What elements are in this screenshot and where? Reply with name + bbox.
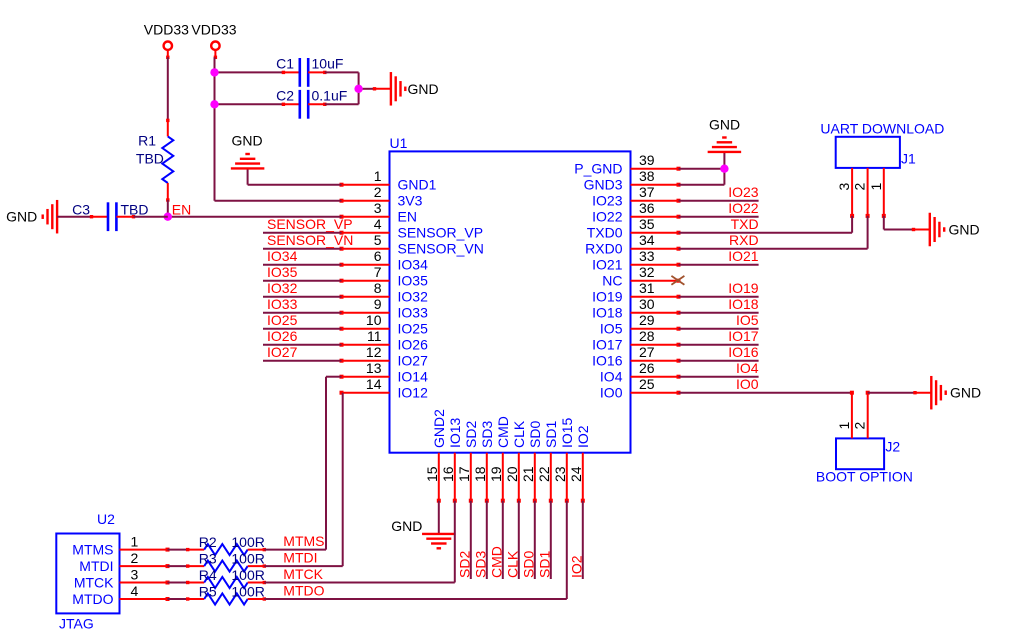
svg-text:31: 31	[639, 280, 655, 296]
svg-text:3V3: 3V3	[398, 193, 423, 209]
svg-text:GND3: GND3	[584, 177, 623, 193]
svg-text:35: 35	[639, 216, 655, 232]
svg-text:GND: GND	[709, 117, 740, 133]
svg-text:U2: U2	[97, 511, 115, 527]
svg-text:IO2: IO2	[575, 425, 591, 448]
svg-text:33: 33	[639, 248, 655, 264]
svg-text:1: 1	[836, 422, 852, 430]
svg-text:23: 23	[552, 466, 568, 482]
svg-text:IO15: IO15	[559, 417, 575, 448]
svg-text:SENSOR_VN: SENSOR_VN	[267, 232, 353, 248]
svg-text:IO16: IO16	[728, 344, 759, 360]
svg-text:32: 32	[639, 264, 655, 280]
svg-text:IO32: IO32	[267, 280, 298, 296]
svg-text:UART DOWNLOAD: UART DOWNLOAD	[820, 121, 944, 137]
svg-text:38: 38	[639, 168, 655, 184]
svg-text:IO35: IO35	[267, 264, 298, 280]
svg-text:IO23: IO23	[728, 184, 759, 200]
svg-text:IO13: IO13	[447, 417, 463, 448]
svg-text:TXD0: TXD0	[587, 225, 623, 241]
svg-text:27: 27	[639, 344, 655, 360]
svg-text:1: 1	[131, 534, 139, 550]
svg-text:26: 26	[639, 360, 655, 376]
svg-text:IO33: IO33	[398, 305, 429, 321]
svg-text:39: 39	[639, 152, 655, 168]
svg-text:SD0: SD0	[520, 551, 536, 578]
svg-text:9: 9	[374, 296, 382, 312]
svg-text:GND: GND	[6, 209, 37, 225]
svg-text:R2: R2	[199, 534, 217, 550]
svg-text:TBD: TBD	[136, 151, 164, 167]
svg-text:IO5: IO5	[600, 321, 623, 337]
svg-text:J2: J2	[885, 439, 900, 455]
svg-text:GND1: GND1	[398, 177, 437, 193]
svg-text:R3: R3	[199, 551, 217, 567]
svg-text:U1: U1	[390, 135, 408, 151]
svg-text:17: 17	[456, 466, 472, 482]
svg-text:IO16: IO16	[592, 353, 623, 369]
svg-text:MTDO: MTDO	[283, 583, 324, 599]
svg-text:JTAG: JTAG	[59, 616, 94, 632]
svg-text:VDD33: VDD33	[144, 22, 189, 38]
svg-text:11: 11	[367, 328, 382, 344]
svg-text:P_GND: P_GND	[574, 161, 622, 177]
svg-text:IO25: IO25	[398, 321, 429, 337]
svg-text:4: 4	[374, 216, 382, 232]
svg-text:IO18: IO18	[592, 305, 623, 321]
svg-text:IO4: IO4	[600, 369, 623, 385]
svg-text:8: 8	[374, 280, 382, 296]
svg-text:SENSOR_VP: SENSOR_VP	[398, 225, 484, 241]
svg-text:IO22: IO22	[728, 200, 759, 216]
svg-text:15: 15	[424, 466, 440, 482]
svg-text:CLK: CLK	[511, 420, 527, 448]
svg-text:GND: GND	[950, 385, 981, 401]
svg-text:IO14: IO14	[398, 369, 429, 385]
svg-text:MTCK: MTCK	[74, 575, 114, 591]
svg-text:IO17: IO17	[592, 337, 623, 353]
svg-text:J1: J1	[901, 151, 916, 167]
svg-text:TXD: TXD	[731, 216, 759, 232]
svg-text:IO0: IO0	[736, 376, 759, 392]
svg-text:CLK: CLK	[504, 550, 520, 578]
svg-text:IO22: IO22	[592, 209, 623, 225]
svg-text:100R: 100R	[231, 567, 264, 583]
svg-text:30: 30	[639, 296, 655, 312]
svg-text:SD1: SD1	[536, 551, 552, 578]
svg-text:4: 4	[131, 583, 139, 599]
svg-text:IO4: IO4	[736, 360, 759, 376]
svg-text:GND: GND	[232, 133, 263, 149]
svg-text:EN: EN	[398, 209, 417, 225]
svg-text:IO25: IO25	[267, 312, 298, 328]
svg-text:SENSOR_VP: SENSOR_VP	[267, 216, 353, 232]
svg-text:R1: R1	[138, 133, 156, 149]
svg-text:IO27: IO27	[267, 344, 298, 360]
svg-text:1: 1	[868, 183, 884, 191]
svg-text:R5: R5	[199, 584, 217, 600]
svg-text:28: 28	[639, 328, 655, 344]
svg-text:3: 3	[374, 200, 382, 216]
svg-text:IO32: IO32	[398, 289, 429, 305]
svg-text:14: 14	[366, 376, 382, 392]
svg-text:IO26: IO26	[398, 337, 429, 353]
svg-text:R4: R4	[199, 567, 217, 583]
svg-text:MTCK: MTCK	[283, 566, 323, 582]
svg-text:20: 20	[504, 466, 520, 482]
svg-text:SD3: SD3	[479, 421, 495, 448]
svg-text:GND: GND	[391, 518, 422, 534]
svg-text:SD2: SD2	[456, 551, 472, 578]
svg-text:EN: EN	[172, 202, 191, 218]
svg-text:24: 24	[568, 466, 584, 482]
svg-text:NC: NC	[602, 273, 622, 289]
svg-text:2: 2	[852, 183, 868, 191]
svg-text:100R: 100R	[231, 551, 264, 567]
svg-text:IO17: IO17	[728, 328, 759, 344]
svg-text:C3: C3	[72, 202, 90, 218]
svg-text:100R: 100R	[231, 584, 264, 600]
svg-text:19: 19	[488, 466, 504, 482]
svg-text:IO27: IO27	[398, 353, 429, 369]
svg-text:GND2: GND2	[431, 409, 447, 448]
svg-text:IO34: IO34	[398, 257, 429, 273]
svg-text:18: 18	[472, 466, 488, 482]
svg-text:3: 3	[836, 183, 852, 191]
svg-text:IO18: IO18	[728, 296, 759, 312]
svg-text:MTDO: MTDO	[72, 591, 113, 607]
svg-text:5: 5	[374, 232, 382, 248]
svg-text:29: 29	[639, 312, 655, 328]
svg-text:0.1uF: 0.1uF	[312, 88, 348, 104]
svg-text:1: 1	[374, 168, 382, 184]
svg-text:MTDI: MTDI	[79, 558, 113, 574]
svg-text:25: 25	[639, 376, 655, 392]
svg-text:IO12: IO12	[398, 385, 429, 401]
svg-text:7: 7	[374, 264, 382, 280]
svg-text:IO33: IO33	[267, 296, 298, 312]
svg-text:SENSOR_VN: SENSOR_VN	[398, 241, 484, 257]
svg-text:36: 36	[639, 200, 655, 216]
svg-text:IO19: IO19	[728, 280, 759, 296]
svg-text:IO23: IO23	[592, 193, 623, 209]
svg-text:RXD0: RXD0	[585, 241, 623, 257]
svg-text:IO21: IO21	[728, 248, 759, 264]
svg-text:VDD33: VDD33	[191, 22, 236, 38]
svg-text:2: 2	[131, 550, 139, 566]
svg-text:SD3: SD3	[472, 551, 488, 578]
svg-text:CMD: CMD	[495, 416, 511, 448]
svg-text:C1: C1	[276, 56, 294, 72]
svg-text:IO26: IO26	[267, 328, 298, 344]
svg-text:GND: GND	[408, 81, 439, 97]
svg-text:IO21: IO21	[592, 257, 623, 273]
svg-text:IO35: IO35	[398, 273, 429, 289]
svg-text:BOOT OPTION: BOOT OPTION	[816, 469, 913, 485]
svg-text:34: 34	[639, 232, 655, 248]
svg-text:SD2: SD2	[463, 421, 479, 448]
svg-text:6: 6	[374, 248, 382, 264]
svg-text:3: 3	[131, 567, 139, 583]
svg-text:SD0: SD0	[527, 421, 543, 448]
svg-text:IO0: IO0	[600, 385, 623, 401]
svg-text:IO19: IO19	[592, 289, 623, 305]
svg-text:MTMS: MTMS	[72, 542, 113, 558]
svg-text:100R: 100R	[231, 534, 264, 550]
svg-text:2: 2	[374, 184, 382, 200]
svg-text:16: 16	[440, 466, 456, 482]
svg-text:22: 22	[536, 466, 552, 482]
svg-text:10uF: 10uF	[312, 56, 344, 72]
svg-text:10: 10	[366, 312, 382, 328]
svg-text:SD1: SD1	[543, 421, 559, 448]
svg-text:37: 37	[639, 184, 655, 200]
svg-text:MTMS: MTMS	[283, 533, 324, 549]
svg-text:21: 21	[520, 466, 536, 482]
svg-text:12: 12	[366, 344, 382, 360]
svg-text:CMD: CMD	[488, 546, 504, 578]
svg-text:C2: C2	[276, 88, 294, 104]
svg-text:IO2: IO2	[568, 555, 584, 578]
svg-text:2: 2	[852, 422, 868, 430]
svg-text:GND: GND	[949, 222, 980, 238]
svg-text:MTDI: MTDI	[283, 550, 317, 566]
svg-text:IO34: IO34	[267, 248, 298, 264]
svg-text:13: 13	[366, 360, 382, 376]
svg-text:IO5: IO5	[736, 312, 759, 328]
svg-text:TBD: TBD	[121, 202, 149, 218]
svg-text:RXD: RXD	[729, 232, 759, 248]
